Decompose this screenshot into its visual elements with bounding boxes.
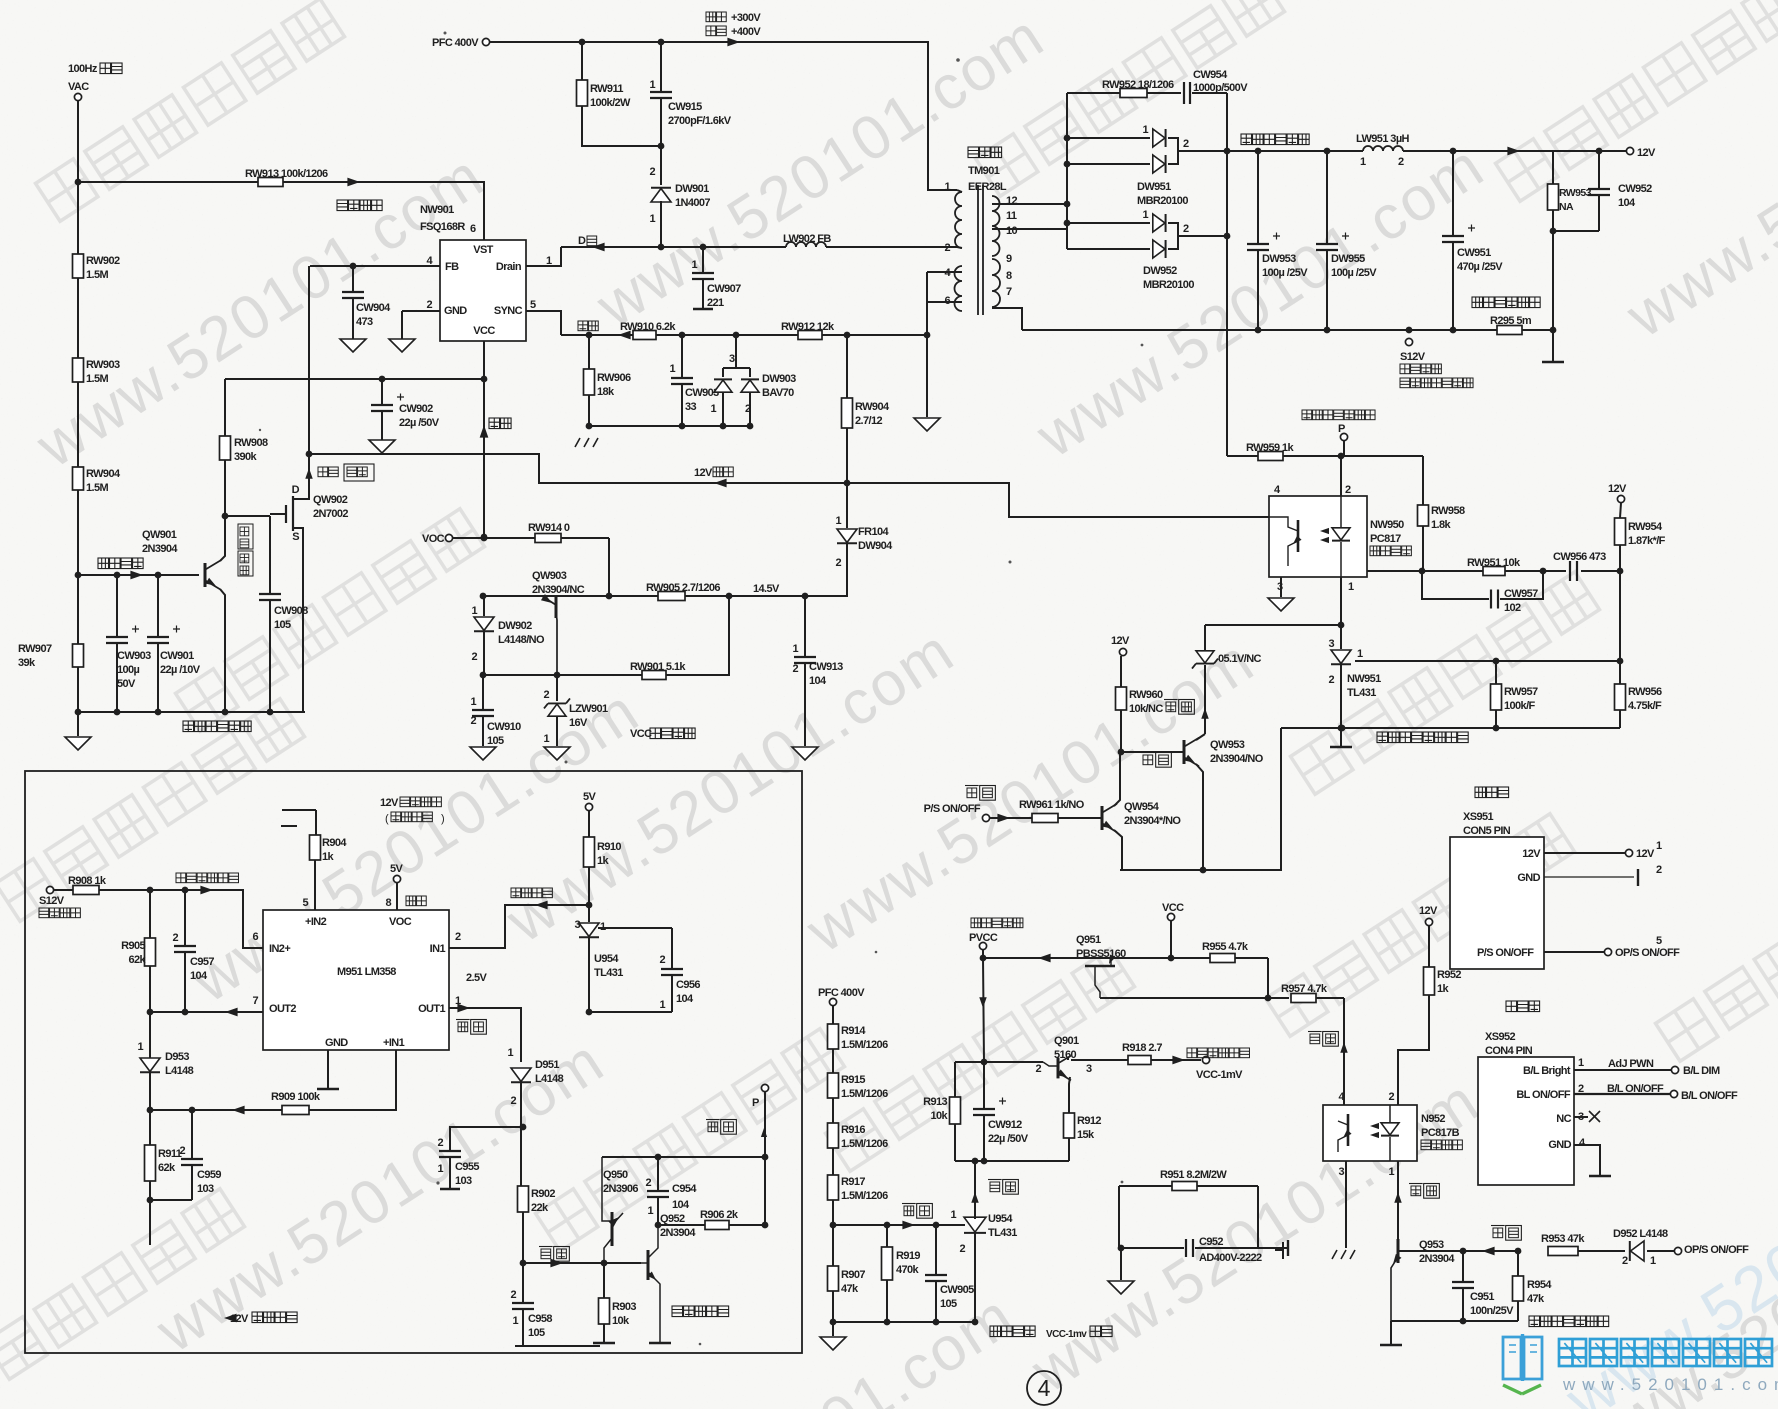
svg-text:DW951: DW951 — [1137, 181, 1171, 193]
svg-text:2: 2 — [1183, 138, 1189, 150]
svg-text:DW902: DW902 — [498, 620, 532, 632]
svg-text:AD400V-2222: AD400V-2222 — [1199, 1252, 1262, 1264]
svg-text:1: 1 — [649, 213, 655, 225]
svg-text:R906 2k: R906 2k — [700, 1209, 739, 1221]
svg-text:QW902: QW902 — [313, 494, 348, 506]
svg-text:1: 1 — [792, 643, 798, 655]
svg-text:1: 1 — [470, 696, 476, 708]
svg-text:RW951 10k: RW951 10k — [1467, 557, 1521, 569]
svg-text:AdJ PWN: AdJ PWN — [1608, 1058, 1654, 1070]
svg-text:): ) — [441, 813, 444, 825]
svg-text:TM901: TM901 — [968, 165, 1000, 177]
svg-text:2: 2 — [179, 1145, 185, 1157]
svg-text:100k/2W: 100k/2W — [590, 97, 631, 109]
svg-text:R953 47k: R953 47k — [1541, 1233, 1585, 1245]
svg-text:100µ /25V: 100µ /25V — [1262, 267, 1308, 279]
svg-text:+400V: +400V — [731, 26, 761, 38]
svg-text:CW905: CW905 — [940, 1284, 974, 1296]
svg-text:FR104: FR104 — [858, 526, 889, 538]
svg-text:RW902: RW902 — [86, 255, 120, 267]
svg-text:2.7/12: 2.7/12 — [855, 415, 882, 427]
svg-text:R917: R917 — [841, 1176, 865, 1188]
svg-text:TL431: TL431 — [594, 967, 623, 979]
svg-text:DW904: DW904 — [858, 540, 893, 552]
svg-text:7: 7 — [252, 995, 258, 1007]
svg-text:C954: C954 — [672, 1183, 697, 1195]
svg-text:2700pF/1.6kV: 2700pF/1.6kV — [668, 115, 732, 127]
svg-text:NW901: NW901 — [420, 204, 454, 216]
svg-text:1k: 1k — [597, 855, 610, 867]
svg-text:2: 2 — [1345, 484, 1351, 496]
svg-text:QW903: QW903 — [532, 570, 567, 582]
svg-text:3: 3 — [1338, 1166, 1344, 1178]
svg-text:NW950: NW950 — [1370, 519, 1404, 531]
svg-text:22µ /50V: 22µ /50V — [399, 417, 440, 429]
svg-text:DW901: DW901 — [675, 183, 709, 195]
svg-text:RW911: RW911 — [590, 83, 623, 95]
svg-text:2: 2 — [426, 299, 432, 311]
svg-text:12V: 12V — [694, 467, 713, 479]
svg-text:2N3904: 2N3904 — [142, 543, 178, 555]
svg-text:Q950: Q950 — [603, 1169, 628, 1181]
svg-text:2: 2 — [649, 166, 655, 178]
svg-text:1: 1 — [1360, 156, 1366, 168]
svg-text:1.5M: 1.5M — [86, 373, 108, 385]
svg-text:VCC: VCC — [473, 325, 495, 337]
svg-text:MBR20100: MBR20100 — [1143, 279, 1194, 291]
svg-text:2: 2 — [1035, 1063, 1041, 1075]
svg-text:18k: 18k — [597, 386, 615, 398]
svg-text:103: 103 — [455, 1175, 472, 1187]
svg-text:1: 1 — [512, 1315, 518, 1327]
svg-text:2: 2 — [510, 1095, 516, 1107]
svg-text:R914: R914 — [841, 1025, 866, 1037]
svg-text:R913: R913 — [923, 1096, 947, 1108]
svg-text:2N3904/NO: 2N3904/NO — [1210, 753, 1264, 765]
svg-text:CW910: CW910 — [487, 721, 521, 733]
svg-text:VAC: VAC — [68, 81, 89, 93]
svg-text:105: 105 — [487, 735, 504, 747]
svg-text:PC817: PC817 — [1370, 533, 1401, 545]
svg-text:U954: U954 — [988, 1213, 1013, 1225]
svg-text:2: 2 — [1183, 223, 1189, 235]
svg-text:B/L ON/OFF: B/L ON/OFF — [1681, 1090, 1738, 1102]
svg-text:5: 5 — [1656, 935, 1662, 947]
svg-text:33: 33 — [685, 401, 697, 413]
svg-text:473: 473 — [356, 316, 373, 328]
svg-text:D953: D953 — [165, 1051, 189, 1063]
svg-text:DW955: DW955 — [1331, 253, 1365, 265]
svg-text:OUT2: OUT2 — [269, 1003, 296, 1015]
svg-text:47k: 47k — [841, 1283, 859, 1295]
svg-text:6: 6 — [252, 931, 258, 943]
svg-text:2N3904/NC: 2N3904/NC — [532, 584, 585, 596]
svg-text:R903: R903 — [612, 1301, 636, 1313]
svg-text:BAV70: BAV70 — [762, 387, 794, 399]
svg-text:1N4007: 1N4007 — [675, 197, 710, 209]
svg-text:NA: NA — [1559, 201, 1574, 213]
svg-text:R919: R919 — [896, 1250, 920, 1262]
svg-text:2: 2 — [659, 954, 665, 966]
svg-text:4: 4 — [1038, 1375, 1051, 1401]
svg-text:1.5M: 1.5M — [86, 482, 108, 494]
svg-text:100µ: 100µ — [117, 664, 140, 676]
svg-text:QW953: QW953 — [1210, 739, 1245, 751]
svg-text:C956: C956 — [676, 979, 700, 991]
svg-text:R915: R915 — [841, 1074, 865, 1086]
svg-text:2N7002: 2N7002 — [313, 508, 348, 520]
svg-text:RW959 1k: RW959 1k — [1246, 442, 1294, 454]
svg-text:50V: 50V — [117, 678, 136, 690]
svg-text:12V: 12V — [1419, 905, 1438, 917]
svg-text:RW904: RW904 — [86, 468, 121, 480]
svg-text:2: 2 — [1328, 674, 1334, 686]
svg-text:RW960: RW960 — [1129, 689, 1163, 701]
svg-text:100µ /25V: 100µ /25V — [1331, 267, 1377, 279]
svg-text:12V: 12V — [380, 797, 399, 809]
svg-text:FB: FB — [445, 261, 459, 273]
svg-text:1: 1 — [944, 181, 950, 193]
svg-text:3: 3 — [1086, 1063, 1092, 1075]
svg-text:10: 10 — [1006, 225, 1018, 237]
svg-text:CW902: CW902 — [399, 403, 433, 415]
svg-text:MBR20100: MBR20100 — [1137, 195, 1188, 207]
svg-text:2: 2 — [543, 689, 549, 701]
svg-text:1: 1 — [1578, 1057, 1584, 1069]
svg-text:104: 104 — [809, 675, 827, 687]
svg-text:RW904: RW904 — [855, 401, 890, 413]
svg-text:SYNC: SYNC — [494, 305, 523, 317]
svg-text:CW951: CW951 — [1457, 247, 1491, 259]
svg-text:TL431: TL431 — [988, 1227, 1017, 1239]
svg-text:D: D — [578, 235, 586, 247]
svg-text:1k: 1k — [322, 851, 335, 863]
svg-text:XS952: XS952 — [1485, 1031, 1516, 1043]
svg-text:4.75k/F: 4.75k/F — [1628, 700, 1662, 712]
svg-text:RW957: RW957 — [1504, 686, 1538, 698]
svg-text:1: 1 — [835, 515, 841, 527]
svg-text:Q951: Q951 — [1076, 934, 1101, 946]
svg-text:8: 8 — [385, 897, 391, 909]
svg-text:R912: R912 — [1077, 1115, 1101, 1127]
svg-text:Q953: Q953 — [1419, 1239, 1444, 1251]
svg-text:2: 2 — [455, 931, 461, 943]
svg-text:B/L ON/OFF: B/L ON/OFF — [1607, 1083, 1664, 1095]
svg-text:RW953: RW953 — [1559, 187, 1592, 199]
svg-text:C955: C955 — [455, 1161, 479, 1173]
svg-text:PFC 400V: PFC 400V — [432, 37, 479, 49]
svg-text:RW905 2.7/1206: RW905 2.7/1206 — [646, 582, 720, 594]
svg-text:P: P — [752, 1097, 759, 1109]
svg-text:62k: 62k — [158, 1162, 176, 1174]
svg-text:1: 1 — [1650, 1255, 1656, 1267]
svg-text:5: 5 — [302, 897, 308, 909]
svg-text:1.87k*/F: 1.87k*/F — [1628, 535, 1666, 547]
svg-text:47k: 47k — [1527, 1293, 1545, 1305]
svg-text:105: 105 — [940, 1298, 957, 1310]
svg-text:2: 2 — [959, 1243, 965, 1255]
svg-text:12V: 12V — [230, 1313, 249, 1325]
svg-text:CW956 473: CW956 473 — [1553, 551, 1606, 563]
svg-text:C957: C957 — [190, 956, 214, 968]
svg-text:7: 7 — [1006, 286, 1012, 298]
svg-text:1: 1 — [1357, 648, 1363, 660]
svg-text:VST: VST — [473, 244, 493, 256]
svg-text:R918 2.7: R918 2.7 — [1122, 1042, 1162, 1054]
svg-text:1.8k: 1.8k — [1431, 519, 1451, 531]
svg-text:D952 L4148: D952 L4148 — [1613, 1228, 1668, 1240]
svg-text:IN1: IN1 — [430, 943, 446, 955]
svg-text:DW903: DW903 — [762, 373, 796, 385]
svg-text:NW951: NW951 — [1347, 673, 1381, 685]
svg-text:CW903: CW903 — [117, 650, 151, 662]
svg-text:+300V: +300V — [731, 12, 761, 24]
svg-text:5: 5 — [530, 299, 536, 311]
svg-text:R902: R902 — [531, 1188, 555, 1200]
svg-text:1: 1 — [1348, 581, 1354, 593]
svg-text:DW953: DW953 — [1262, 253, 1296, 265]
svg-text:CW915: CW915 — [668, 101, 702, 113]
svg-text:1: 1 — [659, 999, 665, 1011]
svg-text:1.5M/1206: 1.5M/1206 — [841, 1138, 888, 1150]
svg-text:L4148: L4148 — [165, 1065, 194, 1077]
svg-text:EER28L: EER28L — [968, 181, 1007, 193]
svg-text:VCC-1mv: VCC-1mv — [1046, 1329, 1087, 1340]
svg-text:1: 1 — [710, 403, 716, 415]
svg-text:3: 3 — [574, 919, 580, 931]
svg-text:C952: C952 — [1199, 1236, 1223, 1248]
svg-text:6: 6 — [470, 223, 476, 235]
svg-text:VOC: VOC — [422, 533, 445, 545]
svg-text:P/S ON/OFF: P/S ON/OFF — [924, 803, 981, 815]
svg-text:RW907: RW907 — [18, 643, 52, 655]
svg-text:9: 9 — [1006, 253, 1012, 265]
svg-text:NC: NC — [1556, 1113, 1571, 1125]
svg-text:PC817B: PC817B — [1421, 1127, 1460, 1139]
svg-text:GND: GND — [444, 305, 467, 317]
svg-text:470µ /25V: 470µ /25V — [1457, 261, 1503, 273]
svg-text:12V: 12V — [1608, 483, 1627, 495]
svg-text:VOC: VOC — [389, 916, 412, 928]
svg-text:M951 LM358: M951 LM358 — [337, 966, 396, 978]
svg-text:1: 1 — [1142, 124, 1148, 136]
svg-text:16V: 16V — [569, 717, 588, 729]
svg-text:CW907: CW907 — [707, 283, 741, 295]
svg-text:+IN2: +IN2 — [305, 916, 327, 928]
svg-text:CW912: CW912 — [988, 1119, 1022, 1131]
svg-text:22µ /50V: 22µ /50V — [988, 1133, 1029, 1145]
svg-text:RW912 12k: RW912 12k — [781, 321, 835, 333]
svg-text:105: 105 — [274, 619, 291, 631]
svg-text:8: 8 — [1006, 270, 1012, 282]
svg-text:XS951: XS951 — [1463, 811, 1494, 823]
svg-text:2: 2 — [510, 1289, 516, 1301]
svg-text:15k: 15k — [1077, 1129, 1095, 1141]
svg-text:IN2+: IN2+ — [269, 943, 290, 955]
svg-text:470k: 470k — [896, 1264, 920, 1276]
svg-text:LZW901: LZW901 — [569, 703, 608, 715]
svg-text:N952: N952 — [1421, 1113, 1445, 1125]
svg-text:3: 3 — [1328, 638, 1334, 650]
svg-text:+IN1: +IN1 — [383, 1037, 405, 1049]
svg-text:1.5M/1206: 1.5M/1206 — [841, 1190, 888, 1202]
svg-text:10k: 10k — [930, 1110, 948, 1122]
svg-text:FSQ168R: FSQ168R — [420, 221, 465, 233]
svg-text:5V: 5V — [390, 863, 404, 875]
svg-text:05.1V/NC: 05.1V/NC — [1218, 653, 1262, 665]
svg-text:S12V: S12V — [39, 895, 65, 907]
svg-text:RW952 18/1206: RW952 18/1206 — [1102, 79, 1174, 91]
svg-text:62k: 62k — [128, 954, 146, 966]
svg-text:2: 2 — [471, 651, 477, 663]
svg-text:BL ON/OFF: BL ON/OFF — [1516, 1089, 1571, 1101]
svg-text:OUT1: OUT1 — [418, 1003, 445, 1015]
svg-text:2: 2 — [470, 715, 476, 727]
svg-text:39k: 39k — [18, 657, 36, 669]
svg-text:2: 2 — [1388, 1091, 1394, 1103]
svg-text:R904: R904 — [322, 837, 347, 849]
svg-text:5V: 5V — [583, 791, 597, 803]
svg-text:2: 2 — [172, 932, 178, 944]
svg-text:D951: D951 — [535, 1059, 559, 1071]
svg-text:CON5 PIN: CON5 PIN — [1463, 825, 1511, 837]
svg-text:2: 2 — [745, 403, 751, 415]
svg-text:1: 1 — [543, 733, 549, 745]
svg-text:104: 104 — [1618, 197, 1636, 209]
svg-text:103: 103 — [197, 1183, 214, 1195]
svg-text:390k: 390k — [234, 451, 258, 463]
svg-text:2: 2 — [944, 242, 950, 254]
svg-text:L4148: L4148 — [535, 1073, 564, 1085]
svg-text:1: 1 — [1656, 840, 1662, 852]
svg-text:CW954: CW954 — [1193, 69, 1228, 81]
svg-text:2: 2 — [835, 557, 841, 569]
svg-text:1: 1 — [437, 1163, 443, 1175]
svg-text:1: 1 — [1142, 209, 1148, 221]
svg-text:10k: 10k — [612, 1315, 630, 1327]
svg-text:D: D — [292, 484, 300, 496]
svg-text:RW901 5.1k: RW901 5.1k — [630, 661, 686, 673]
svg-text:RW914 0: RW914 0 — [528, 522, 570, 534]
svg-text:2: 2 — [1622, 1255, 1628, 1267]
svg-text:12V: 12V — [1636, 848, 1655, 860]
svg-text:R909 100k: R909 100k — [271, 1091, 321, 1103]
svg-text:R951 8.2M/2W: R951 8.2M/2W — [1160, 1169, 1227, 1181]
svg-text:104: 104 — [672, 1199, 690, 1211]
svg-text:R905: R905 — [121, 940, 145, 952]
svg-text:VCC: VCC — [1162, 902, 1184, 914]
svg-text:VCC-1mV: VCC-1mV — [1196, 1069, 1243, 1081]
svg-text:1: 1 — [137, 1041, 143, 1053]
svg-text:P/S ON/OFF: P/S ON/OFF — [1477, 947, 1534, 959]
svg-text:PFC 400V: PFC 400V — [818, 987, 865, 999]
svg-text:RW906: RW906 — [597, 372, 631, 384]
svg-text:104: 104 — [190, 970, 208, 982]
svg-text:102: 102 — [1504, 602, 1521, 614]
svg-text:R908 1k: R908 1k — [68, 875, 107, 887]
svg-text:2: 2 — [437, 1137, 443, 1149]
svg-text:R952: R952 — [1437, 969, 1461, 981]
svg-text:12V: 12V — [1637, 147, 1656, 159]
svg-text:14.5V: 14.5V — [753, 583, 780, 595]
svg-text:1: 1 — [647, 1205, 653, 1217]
svg-text:RW954: RW954 — [1628, 521, 1663, 533]
svg-text:RW910 6.2k: RW910 6.2k — [620, 321, 676, 333]
svg-text:RW903: RW903 — [86, 359, 120, 371]
svg-text:1.5M/1206: 1.5M/1206 — [841, 1088, 888, 1100]
svg-text:1: 1 — [950, 1209, 956, 1221]
svg-text:QW901: QW901 — [142, 529, 177, 541]
svg-text:PBSS5160: PBSS5160 — [1076, 948, 1126, 960]
svg-text:LW951 3µH: LW951 3µH — [1356, 133, 1410, 145]
svg-text:1: 1 — [691, 259, 697, 271]
svg-text:RW913 100k/1206: RW913 100k/1206 — [245, 168, 328, 180]
svg-text:VCC: VCC — [630, 728, 652, 740]
svg-text:11: 11 — [1006, 210, 1017, 222]
svg-text:C958: C958 — [528, 1313, 552, 1325]
svg-text:2: 2 — [1656, 864, 1662, 876]
svg-text:2N3904: 2N3904 — [1419, 1253, 1455, 1265]
svg-text:R954: R954 — [1527, 1279, 1552, 1291]
svg-text:OP/S ON/OFF: OP/S ON/OFF — [1615, 947, 1680, 959]
svg-text:2N3906: 2N3906 — [603, 1183, 638, 1195]
svg-text:3: 3 — [729, 353, 735, 365]
svg-text:B/L Bright: B/L Bright — [1523, 1065, 1571, 1077]
svg-text:CW913: CW913 — [809, 661, 843, 673]
svg-text:100k/F: 100k/F — [1504, 700, 1536, 712]
svg-text:U954: U954 — [594, 953, 619, 965]
svg-text:CW901: CW901 — [160, 650, 194, 662]
svg-text:12V: 12V — [1522, 848, 1541, 860]
svg-text:22µ /10V: 22µ /10V — [160, 664, 201, 676]
svg-text:CW952: CW952 — [1618, 183, 1652, 195]
svg-text:R911: R911 — [158, 1148, 182, 1160]
svg-text:22k: 22k — [531, 1202, 549, 1214]
svg-text:DW952: DW952 — [1143, 265, 1177, 277]
svg-text:RW958: RW958 — [1431, 505, 1465, 517]
svg-text:CW957: CW957 — [1504, 588, 1538, 600]
svg-text:R907: R907 — [841, 1269, 865, 1281]
svg-text:S12V: S12V — [1400, 351, 1426, 363]
svg-text:10k/NC: 10k/NC — [1129, 703, 1163, 715]
svg-text:CON4 PIN: CON4 PIN — [1485, 1045, 1533, 1057]
svg-text:2.5V: 2.5V — [466, 972, 487, 984]
svg-text:1: 1 — [507, 1047, 513, 1059]
svg-text:2N3904*/NO: 2N3904*/NO — [1124, 815, 1181, 827]
svg-text:RW956: RW956 — [1628, 686, 1662, 698]
svg-text:2: 2 — [645, 1177, 651, 1189]
svg-text:QW954: QW954 — [1124, 801, 1160, 813]
svg-text:105: 105 — [528, 1327, 545, 1339]
svg-text:1k: 1k — [1437, 983, 1450, 995]
svg-text:LW902 FB: LW902 FB — [783, 233, 831, 245]
svg-text:R957 4.7k: R957 4.7k — [1281, 983, 1328, 995]
svg-text:RW908: RW908 — [234, 437, 268, 449]
svg-text:104: 104 — [676, 993, 694, 1005]
svg-text:1000p/500V: 1000p/500V — [1193, 82, 1248, 94]
svg-text:1: 1 — [669, 363, 675, 375]
svg-text:RW961 1k/NO: RW961 1k/NO — [1019, 799, 1085, 811]
svg-text:www.520101.com: www.520101.com — [1562, 1375, 1778, 1394]
svg-text:GND: GND — [1517, 872, 1540, 884]
svg-text:221: 221 — [707, 297, 724, 309]
svg-text:GND: GND — [1548, 1139, 1571, 1151]
svg-text:100Hz: 100Hz — [68, 63, 98, 75]
svg-text:S: S — [292, 531, 299, 543]
svg-text:1: 1 — [1388, 1166, 1394, 1178]
svg-text:1.5M/1206: 1.5M/1206 — [841, 1039, 888, 1051]
svg-text:R916: R916 — [841, 1124, 865, 1136]
